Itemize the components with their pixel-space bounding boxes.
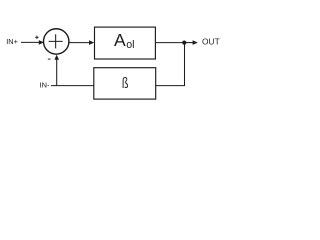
svg-text:A: A — [114, 30, 126, 50]
wire feedback to beta block — [156, 85, 185, 87]
arrowhead into A_ol — [89, 40, 94, 45]
wire IN- to beta block — [51, 85, 94, 87]
svg-text:ol: ol — [126, 39, 134, 51]
arrowhead OUT — [193, 40, 198, 45]
block A_ol — [95, 27, 156, 59]
wire feedback vertical into summer — [56, 58, 58, 86]
wire A_ol to output node — [156, 42, 185, 44]
wire summer to A_ol — [69, 42, 90, 44]
svg-text:ß: ß — [122, 74, 129, 91]
svg-text:IN-: IN- — [40, 81, 50, 90]
minus sign at feedback input — [48, 58, 51, 60]
svg-text:OUT: OUT — [202, 36, 220, 46]
summing junction — [44, 29, 69, 54]
plus cross inside summing junction — [49, 34, 63, 48]
output node junction dot — [182, 41, 186, 45]
wire IN+ lead — [21, 41, 40, 43]
wire node to OUT — [185, 42, 194, 44]
svg-text:IN+: IN+ — [6, 37, 18, 46]
arrowhead into summing junction bottom — [54, 55, 59, 60]
block beta — [94, 68, 156, 99]
arrowhead into summing junction left — [39, 40, 44, 45]
plus sign at summer input — [35, 36, 39, 40]
wire node down — [184, 43, 186, 86]
